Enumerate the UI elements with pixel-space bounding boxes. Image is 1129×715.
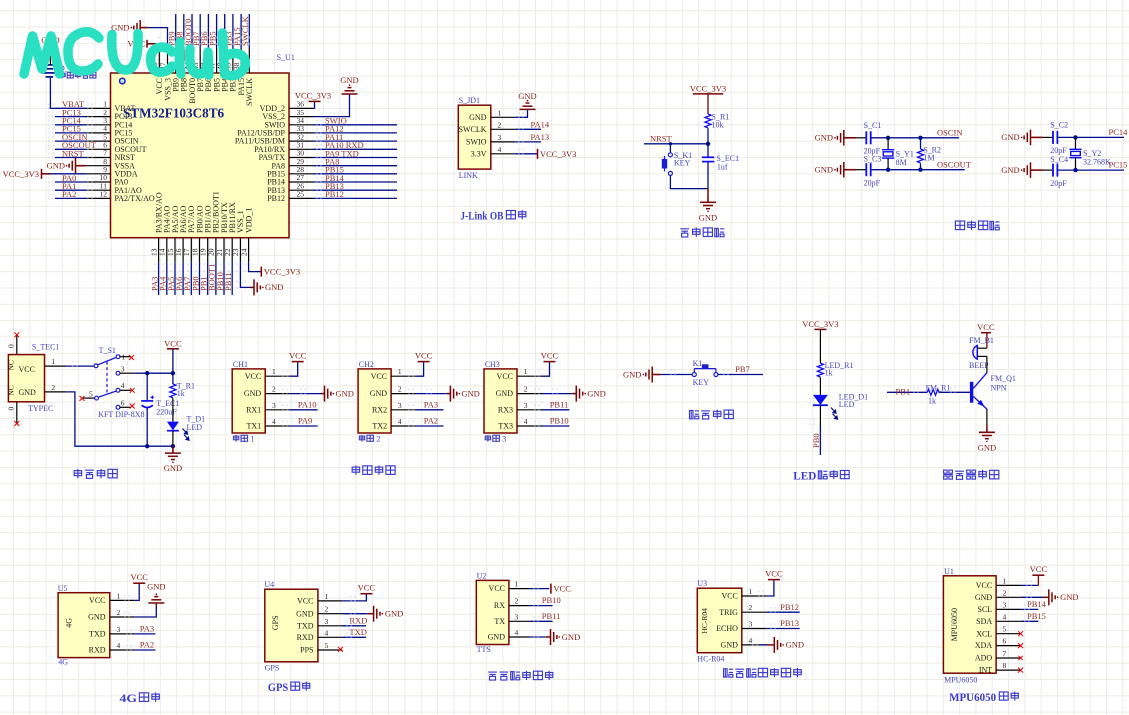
svg-text:PB13: PB13 xyxy=(780,618,799,628)
CH1 pin 1 VCC xyxy=(245,367,290,381)
CH1 ground xyxy=(321,386,334,402)
wire pin1 to VCC xyxy=(124,583,139,601)
module U4 body xyxy=(264,580,318,672)
wire net PB3 xyxy=(224,14,234,49)
wire net PA11 xyxy=(314,132,398,142)
pin 20 PB2/BOOT1 xyxy=(207,191,221,262)
svg-text:PA2: PA2 xyxy=(140,640,154,650)
wire net PA2 xyxy=(126,640,155,651)
svg-text:OSCIN: OSCIN xyxy=(937,127,963,137)
wire net PA10 xyxy=(314,140,398,150)
wire net PB10 xyxy=(215,262,225,295)
svg-text:TTS: TTS xyxy=(477,645,491,654)
ground xyxy=(700,197,716,212)
CH2 pin 4 TX2 xyxy=(372,417,415,431)
resistor FM_R1 1k xyxy=(926,383,951,405)
svg-text:RX2: RX2 xyxy=(372,405,387,414)
module U2 body xyxy=(476,571,509,654)
ground at pin 8 VSSA xyxy=(79,165,86,167)
wire net PA1 xyxy=(48,181,93,191)
pin 34 SWIO xyxy=(265,116,314,129)
svg-text:GND: GND xyxy=(461,388,479,398)
wire net PC13 xyxy=(48,107,93,117)
pin 8 VSSA xyxy=(86,157,135,170)
wire pin1 to VCC xyxy=(530,583,549,589)
wire net PB10 xyxy=(530,595,561,606)
svg-text:S_C4: S_C4 xyxy=(1050,155,1068,164)
svg-text:2: 2 xyxy=(272,385,276,394)
svg-text:2: 2 xyxy=(325,605,329,614)
wire net PA9 xyxy=(314,148,398,158)
svg-text:S_JD1: S_JD1 xyxy=(459,96,480,105)
wire pin1 to VCC xyxy=(758,580,774,597)
svg-text:2: 2 xyxy=(51,383,55,392)
capacitor S_EC1 1uf xyxy=(702,144,739,189)
svg-text:VCC_3V3: VCC_3V3 xyxy=(3,169,39,179)
U2 pin 4 GND xyxy=(488,628,530,642)
svg-text:VCC: VCC xyxy=(541,351,559,361)
wire resistor to NRST node xyxy=(707,128,709,144)
ground xyxy=(1049,589,1079,605)
crystal S_Y2 32.768K xyxy=(1069,137,1111,170)
pin 39 PB3 xyxy=(224,49,238,92)
svg-text:5: 5 xyxy=(325,641,329,650)
svg-text:K1: K1 xyxy=(693,359,703,368)
svg-text:GND: GND xyxy=(385,609,403,619)
svg-text:3: 3 xyxy=(498,133,502,142)
pin 29 PA8 xyxy=(272,157,314,170)
svg-text:1: 1 xyxy=(1003,576,1007,585)
svg-text:SWIO: SWIO xyxy=(466,138,487,147)
CH3 wire pin2 to ground xyxy=(534,388,573,394)
caption reset circuit xyxy=(680,229,689,237)
wire emitter to ground xyxy=(986,409,988,424)
U1 pin 3 SCL xyxy=(978,600,1021,614)
module U1 body xyxy=(943,567,996,685)
CH2 pin 1 VCC xyxy=(371,367,416,381)
pin 14 PA4/AO xyxy=(158,206,172,263)
wire net PA3 xyxy=(126,624,155,635)
svg-text:2: 2 xyxy=(398,385,402,394)
pin 0 bottom no-connect xyxy=(7,402,17,424)
pin 15 PA5/AO xyxy=(166,206,180,263)
svg-text:1k: 1k xyxy=(177,389,185,398)
svg-text:3: 3 xyxy=(272,401,276,410)
svg-text:PC14: PC14 xyxy=(1109,127,1129,137)
svg-text:3: 3 xyxy=(121,364,125,373)
svg-text:NC: NC xyxy=(7,385,16,395)
CH3 pin 2 GND xyxy=(496,385,542,399)
wire net PB6 xyxy=(199,14,209,49)
svg-text:GND: GND xyxy=(815,165,833,175)
svg-text:J-Link OB: J-Link OB xyxy=(460,211,503,223)
caption LED circuit xyxy=(793,470,849,482)
svg-text:4: 4 xyxy=(117,641,121,650)
svg-text:2: 2 xyxy=(524,385,528,394)
ground right-crystal bottom xyxy=(1001,162,1043,178)
pin 24 VDD_1 xyxy=(239,208,253,263)
voice output module TTS xyxy=(476,571,580,680)
svg-text:VCC_3V3: VCC_3V3 xyxy=(690,83,726,93)
crystal circuit 32.768K xyxy=(955,121,1128,230)
svg-text:GND: GND xyxy=(1001,132,1019,142)
svg-text:VCC: VCC xyxy=(130,572,148,582)
MCU section: STM32F103C8T6 S_U1 xyxy=(3,14,397,295)
svg-text:LED: LED xyxy=(839,400,855,409)
capacitor T_EC1 220uF xyxy=(141,373,179,446)
svg-text:S_TEC1: S_TEC1 xyxy=(32,343,60,352)
svg-text:MPU6050: MPU6050 xyxy=(950,608,959,641)
svg-text:GND: GND xyxy=(370,389,388,398)
svg-text:4: 4 xyxy=(325,628,329,637)
svg-text:GND: GND xyxy=(336,388,354,398)
wire net PB15 xyxy=(1021,611,1046,622)
label serial port 2 (CJK) xyxy=(359,435,380,444)
svg-text:4G: 4G xyxy=(120,693,138,705)
wire net NRST xyxy=(48,148,93,158)
svg-text:VCC: VCC xyxy=(977,322,995,332)
pin8 INT no-connect xyxy=(1018,668,1023,673)
svg-text:3: 3 xyxy=(1003,600,1007,609)
power port VCC xyxy=(164,338,182,373)
svg-text:ADO: ADO xyxy=(975,654,993,663)
crystal circuit 8M xyxy=(815,121,972,188)
pin 4 PC15 xyxy=(86,124,132,137)
no-ERC marker circle xyxy=(120,78,126,84)
svg-text:T_S1: T_S1 xyxy=(99,346,116,355)
wire net PA12 xyxy=(314,124,398,134)
wire net PC15 xyxy=(1057,160,1127,173)
pin 13 PA3/RX/AO xyxy=(149,192,163,262)
wire net PC14 xyxy=(1057,127,1128,140)
pin 48 VCC xyxy=(150,49,164,95)
svg-text:4: 4 xyxy=(121,381,125,390)
pin5 PPS no-connect xyxy=(338,647,343,652)
svg-text:VCC_3V3: VCC_3V3 xyxy=(540,149,576,159)
resistor S_R2 1M xyxy=(918,138,941,170)
svg-text:4: 4 xyxy=(524,417,528,426)
svg-text:PB12: PB12 xyxy=(780,602,799,612)
pin 45 PB8 xyxy=(175,49,189,92)
svg-text:S_C1: S_C1 xyxy=(864,121,882,130)
wire pin1 to ground xyxy=(515,110,527,118)
power port VCC xyxy=(1032,574,1044,576)
svg-text:4: 4 xyxy=(1003,612,1007,621)
svg-text:4: 4 xyxy=(272,417,276,426)
CH2 ground xyxy=(447,386,460,402)
svg-text:1k: 1k xyxy=(825,369,833,378)
svg-text:VCC: VCC xyxy=(358,583,376,593)
pin 26 PB13 xyxy=(267,181,313,194)
svg-text:CH2: CH2 xyxy=(359,360,374,369)
wire buzzer to collector xyxy=(986,356,988,372)
svg-text:1: 1 xyxy=(325,592,329,601)
capacitor S_C1 20pF xyxy=(856,121,881,156)
power port VCC_3V3 at pin 36 VDD_2 xyxy=(314,101,315,108)
LED T_D1 xyxy=(167,398,205,446)
wire net TXD xyxy=(342,627,366,638)
wire net PB13 xyxy=(314,181,398,191)
wire to ground xyxy=(707,189,709,197)
svg-text:SCL: SCL xyxy=(978,605,993,614)
capacitor S_C4 20pF xyxy=(1043,155,1068,188)
caption MPU6050 module xyxy=(949,692,1018,704)
svg-text:VDD_1: VDD_1 xyxy=(244,208,253,233)
pin 17 PA7/AO xyxy=(182,206,196,263)
svg-text:3: 3 xyxy=(398,401,402,410)
power port VCC xyxy=(133,582,145,584)
U4 pin 5 PPS xyxy=(300,641,342,655)
transistor FM_Q1 NPN xyxy=(970,373,1016,409)
wire net OSCOUT xyxy=(871,159,972,172)
svg-text:GND: GND xyxy=(496,389,514,398)
ground xyxy=(774,637,804,653)
CH1 power port VCC xyxy=(292,361,304,363)
CH1 wire net PA10 xyxy=(282,399,317,410)
svg-text:2: 2 xyxy=(515,597,519,606)
CH2 pin 2 GND xyxy=(370,385,416,399)
svg-text:RXD: RXD xyxy=(297,633,314,642)
U2 pin 1 VCC xyxy=(489,580,530,594)
svg-text:6: 6 xyxy=(1003,637,1007,646)
connector S_TEC1 TYPEC body xyxy=(8,355,44,402)
wire net PA4 xyxy=(158,262,168,295)
CH3 pin 3 RX3 xyxy=(498,401,542,415)
wire net PB5 xyxy=(207,14,217,49)
U5 pin 3 TXD xyxy=(89,625,134,639)
svg-text:PB14: PB14 xyxy=(1027,599,1047,609)
ground xyxy=(374,606,404,622)
CH1 pin 3 RX1 xyxy=(246,401,290,415)
svg-text:GND: GND xyxy=(699,212,717,222)
caption GPS module xyxy=(268,682,310,694)
svg-text:RX: RX xyxy=(494,601,505,610)
power port VCC at pin 48 xyxy=(128,39,160,49)
CH2 wire net PA2 xyxy=(408,416,443,427)
power supply circuit xyxy=(7,332,206,478)
svg-text:4: 4 xyxy=(749,636,753,645)
MPU6050 module xyxy=(943,564,1078,704)
CH3 pin 1 VCC xyxy=(497,367,542,381)
svg-text:1: 1 xyxy=(498,108,502,117)
svg-text:2: 2 xyxy=(498,120,502,129)
ground at pin 35 VSS_2 xyxy=(314,94,350,117)
svg-text:6: 6 xyxy=(121,398,125,407)
capacitor S_C3 20pF xyxy=(856,155,881,188)
svg-text:VCC: VCC xyxy=(415,351,433,361)
ground symbol xyxy=(518,91,536,110)
ground right-crystal top xyxy=(1001,130,1043,146)
svg-text:U4: U4 xyxy=(264,580,274,589)
svg-text:1: 1 xyxy=(251,435,255,444)
svg-text:10k: 10k xyxy=(712,121,724,130)
svg-text:GND: GND xyxy=(786,640,804,650)
connector CH2 body xyxy=(358,360,391,433)
svg-text:VCC: VCC xyxy=(297,597,313,606)
U4 pin 4 RXD xyxy=(297,628,343,642)
svg-text:VCC: VCC xyxy=(289,351,307,361)
GPS module xyxy=(264,580,403,694)
pin 2 SWCLK xyxy=(459,120,516,134)
wire net BOOT0 xyxy=(183,14,193,49)
wire net PB0 (rotated label) xyxy=(809,398,821,455)
svg-text:VCC: VCC xyxy=(721,592,737,601)
ultrasonic module HC-R04 xyxy=(697,569,804,678)
wire net RXD xyxy=(342,615,367,626)
caption crystal circuit xyxy=(955,221,964,230)
serial port circuits xyxy=(232,351,606,475)
connector CH3 body xyxy=(484,360,517,433)
U1 pin 4 SDA xyxy=(976,612,1020,626)
svg-text:SWCLK: SWCLK xyxy=(245,78,254,106)
pin 2 PC13 xyxy=(86,108,132,121)
svg-text:HC-R04: HC-R04 xyxy=(697,654,724,663)
svg-text:PA2/TX/AO: PA2/TX/AO xyxy=(115,194,155,203)
CH1 pin 2 GND xyxy=(244,385,290,399)
pin 3 SWIO xyxy=(466,133,515,147)
wire net PB7 xyxy=(718,364,763,375)
U5 pin 4 RXD xyxy=(89,641,135,655)
pin 32 PA11/USB/DM xyxy=(235,132,314,145)
svg-text:GND: GND xyxy=(340,75,358,85)
ground xyxy=(979,427,995,442)
svg-text:GPS: GPS xyxy=(265,663,280,672)
svg-text:4: 4 xyxy=(498,145,502,154)
svg-text:VCC: VCC xyxy=(497,372,513,381)
ground at pin 23 VSS_1 xyxy=(240,262,283,295)
svg-text:24: 24 xyxy=(239,248,248,256)
pin 9 VDDA xyxy=(86,165,138,178)
wire net PB12 xyxy=(766,602,799,613)
pin 1 GND xyxy=(469,108,515,122)
svg-text:KEY: KEY xyxy=(674,159,691,168)
svg-text:GND: GND xyxy=(469,113,487,122)
svg-text:5: 5 xyxy=(89,389,93,398)
wire pin4 to ground xyxy=(530,632,551,638)
svg-text:2: 2 xyxy=(376,435,380,444)
svg-text:VCC: VCC xyxy=(976,581,992,590)
CH3 wire pin1 to VCC xyxy=(534,362,550,377)
U4 pin 3 TXD xyxy=(297,617,342,631)
svg-text:3.3V: 3.3V xyxy=(471,149,487,158)
pin 35 VSS_2 xyxy=(262,108,313,121)
svg-text:VCC_3V3: VCC_3V3 xyxy=(295,90,331,100)
svg-text:PB11: PB11 xyxy=(550,399,569,409)
svg-text:20pF: 20pF xyxy=(1050,179,1067,188)
svg-text:4: 4 xyxy=(515,628,519,637)
pin 41 PB5 xyxy=(207,49,221,92)
svg-text:LED: LED xyxy=(187,423,203,432)
svg-text:GND: GND xyxy=(518,91,536,101)
svg-text:8M: 8M xyxy=(896,158,907,167)
svg-text:GND: GND xyxy=(488,633,506,642)
svg-text:CH1: CH1 xyxy=(233,360,248,369)
power port VCC_3V3 at pin 9 VDDA xyxy=(42,173,87,175)
svg-text:TX1: TX1 xyxy=(247,422,262,431)
svg-text:VCC: VCC xyxy=(245,372,261,381)
U1 pin 8 INT xyxy=(979,661,1021,675)
svg-text:0: 0 xyxy=(7,344,16,348)
U1 pin 6 XDA xyxy=(975,637,1021,651)
power port VCC xyxy=(551,584,571,594)
pin 37 SWCLK xyxy=(240,49,254,107)
wire pin1 to VCC xyxy=(342,594,366,602)
wire net PB14 xyxy=(314,173,398,183)
pin 46 PB9 xyxy=(167,49,181,92)
IC S_U1 STM32F103C8T6 body xyxy=(111,73,290,238)
wire GND rail xyxy=(66,392,175,449)
svg-text:U5: U5 xyxy=(58,584,68,593)
svg-text:NRST: NRST xyxy=(62,148,85,158)
U3 pin 4 GND xyxy=(721,636,767,650)
wire net PA6 xyxy=(174,262,184,295)
MCUclub logo xyxy=(24,32,246,76)
svg-text:GND: GND xyxy=(978,442,996,452)
svg-text:GND: GND xyxy=(623,369,641,379)
svg-text:NPN: NPN xyxy=(991,384,1007,393)
pin 16 PA6/AO xyxy=(174,206,188,263)
svg-text:VCC: VCC xyxy=(371,372,387,381)
svg-text:FM_Q1: FM_Q1 xyxy=(991,374,1016,383)
svg-text:PA10: PA10 xyxy=(298,399,317,409)
wire net PB4 xyxy=(216,14,226,49)
svg-text:VCC_3V3: VCC_3V3 xyxy=(802,319,838,329)
J-Link OB connector S_JD1 xyxy=(458,91,576,223)
svg-text:5: 5 xyxy=(1003,625,1007,634)
svg-text:GND: GND xyxy=(1001,165,1019,175)
ground at pin 47 VSS_3 xyxy=(111,20,167,49)
pin 11 PA1/AO xyxy=(86,181,142,194)
wire net PA15 xyxy=(232,14,242,49)
svg-text:TRIG: TRIG xyxy=(719,608,738,617)
CH2 wire net PA3 xyxy=(408,399,443,410)
svg-text:TX: TX xyxy=(494,617,505,626)
U2 pin 3 TX xyxy=(494,612,530,626)
connector CH1 body xyxy=(232,360,265,433)
svg-text:PA13: PA13 xyxy=(531,132,550,142)
svg-text:32.768K: 32.768K xyxy=(1083,158,1111,167)
wire net PB1 xyxy=(199,262,209,295)
svg-text:LED: LED xyxy=(793,470,816,482)
CH2 wire pin1 to VCC xyxy=(408,362,424,377)
svg-text:PB12: PB12 xyxy=(325,189,344,199)
svg-text:1: 1 xyxy=(117,591,121,600)
svg-text:GND: GND xyxy=(975,593,993,602)
svg-text:ECHO: ECHO xyxy=(716,624,738,633)
svg-text:VCC: VCC xyxy=(765,569,783,579)
push button K1 KEY xyxy=(692,359,718,387)
svg-text:PB10: PB10 xyxy=(550,416,569,426)
svg-text:STM32F103C8T6: STM32F103C8T6 xyxy=(123,106,225,121)
LED lamp circuit xyxy=(793,319,868,482)
U4 pin 1 VCC xyxy=(297,592,342,606)
pin 43 PB7 xyxy=(191,49,205,92)
svg-text:PA9: PA9 xyxy=(298,416,312,426)
power port VCC xyxy=(768,579,780,581)
wire net PA3 xyxy=(149,262,159,295)
svg-text:TYPEC: TYPEC xyxy=(28,404,53,413)
svg-text:3: 3 xyxy=(749,620,753,629)
battery D_C1 button cell xyxy=(41,53,86,108)
svg-text:PA3: PA3 xyxy=(424,399,438,409)
svg-text:VCC: VCC xyxy=(553,584,571,594)
svg-text:1M: 1M xyxy=(924,154,935,163)
svg-text:1k: 1k xyxy=(928,396,936,405)
wire net OSCIN xyxy=(871,127,963,140)
pin 27 PB14 xyxy=(267,173,313,186)
svg-text:1: 1 xyxy=(51,357,55,366)
pin 2 GND xyxy=(45,383,67,392)
